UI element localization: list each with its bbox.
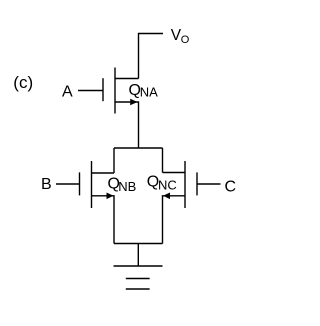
svg-text:B: B [41,176,52,193]
svg-text:A: A [62,84,73,101]
svg-text:NC: NC [158,177,177,192]
svg-text:NA: NA [140,85,158,100]
svg-text:O: O [181,34,190,46]
svg-text:NB: NB [118,179,136,194]
svg-text:(c): (c) [13,73,33,92]
svg-text:C: C [225,179,237,196]
